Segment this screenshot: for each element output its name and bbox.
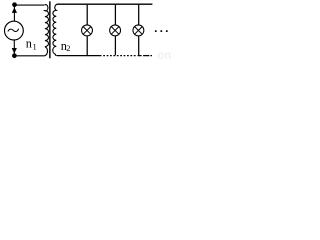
wire (bottom secondary bus, solid part) [57, 55, 102, 57]
wire (lamp L3 top lead) [138, 5, 140, 25]
svg-text:n: n [26, 37, 32, 51]
tilde inside source [8, 29, 19, 32]
wire (lamp L2 top lead) [114, 5, 116, 25]
wire (lamp L1 bottom lead) [86, 36, 88, 55]
svg-text:2: 2 [66, 43, 70, 53]
wire (bottom secondary bus, dash ends) [138, 55, 152, 57]
wire (lamp L2 bottom lead) [114, 36, 116, 55]
arrow down [12, 48, 17, 53]
wire (top primary: dot to coil) [14, 4, 44, 6]
transformer core [49, 1, 51, 58]
wire (bottom primary: dot to coil) [14, 55, 43, 57]
wire (lamp L3 bottom lead) [138, 36, 140, 55]
wire (bottom secondary bus, dotted continuation) [103, 55, 136, 57]
wire (bottom-left vertical: source to dot) with current arrow down [13, 40, 15, 55]
ellipsis dots (more lamps) [155, 30, 157, 32]
lamp L3 [133, 25, 144, 36]
svg-text:1: 1 [33, 41, 37, 51]
wire (top secondary bus) [57, 3, 152, 5]
node A (top-left junction dot) [12, 2, 17, 7]
arrow up [12, 8, 17, 13]
lamp L2 [110, 25, 121, 36]
node B (bottom-left junction dot) [12, 53, 17, 58]
lamp L1 [82, 25, 93, 36]
primary winding n1 [43, 5, 49, 56]
secondary winding n2 [53, 4, 59, 55]
wire (top-left vertical: dot to source) with current arrow up [13, 6, 15, 21]
wire (lamp L1 top lead) [86, 5, 88, 25]
svg-text:om: om [158, 50, 172, 60]
ac source G [5, 21, 24, 40]
